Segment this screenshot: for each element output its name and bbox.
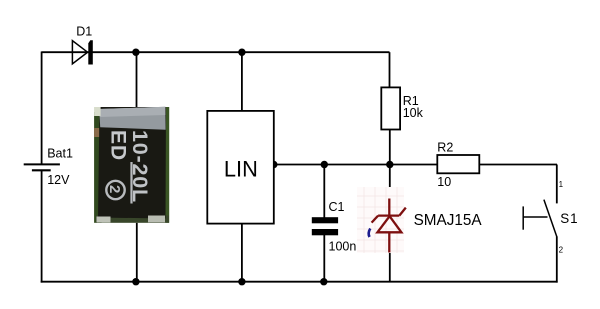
battery Bat1 — [24, 146, 73, 187]
wire middle rail — [274, 164, 557, 166]
node dot bottom rail / LIN — [238, 278, 245, 285]
svg-text:ED: ED — [107, 130, 130, 161]
svg-text:S1: S1 — [560, 211, 578, 226]
LIN module box — [207, 111, 273, 224]
wire C1 top — [323, 165, 325, 218]
wire TVS bottom — [389, 253, 391, 282]
wire photo top — [136, 52, 138, 108]
svg-text:R2: R2 — [437, 140, 453, 154]
diode D1 — [72, 25, 92, 65]
svg-text:100n: 100n — [329, 239, 357, 253]
TVS diode SMAJ15A — [372, 199, 406, 253]
wire LIN bottom — [241, 224, 243, 282]
wire left battery top — [41, 52, 43, 165]
lever — [544, 200, 557, 237]
node dot bottom rail / C1 — [320, 278, 327, 285]
wire photo bottom — [136, 223, 138, 282]
node dot top rail / photo — [132, 49, 139, 56]
node dot bottom rail / photo — [132, 278, 139, 285]
svg-text:1: 1 — [559, 180, 564, 189]
capacitor C1 — [312, 200, 357, 253]
svg-text:10: 10 — [437, 175, 451, 189]
wire left battery bottom — [41, 170, 43, 282]
wire S1 top — [556, 165, 558, 204]
wire TVS top — [389, 165, 391, 200]
wire R1 top — [389, 52, 391, 87]
svg-text:C1: C1 — [329, 200, 345, 214]
node dot top rail / LIN — [238, 49, 245, 56]
wire bottom rail — [41, 281, 558, 283]
svg-text:D1: D1 — [76, 25, 92, 39]
svg-text:SMAJ15A: SMAJ15A — [414, 212, 483, 229]
wire LIN top — [241, 52, 243, 111]
node dot middle rail / LIN pin — [270, 161, 277, 168]
blue artifact mark — [369, 229, 371, 238]
svg-text:10k: 10k — [403, 106, 424, 120]
actuator head — [522, 206, 524, 229]
photo logo circle — [106, 181, 124, 199]
node dot middle rail / R1-TVS — [386, 161, 393, 168]
component photo (SMD part on PCB) — [94, 107, 169, 223]
wire S1 bottom — [556, 237, 558, 283]
svg-text:2: 2 — [559, 246, 564, 255]
wire R1 bottom — [389, 130, 391, 165]
photo underline under 20L — [130, 162, 132, 204]
svg-text:Bat1: Bat1 — [47, 146, 73, 160]
resistor R2 — [437, 140, 479, 189]
wire top rail — [42, 51, 390, 53]
svg-text:12V: 12V — [47, 173, 70, 187]
svg-text:LIN: LIN — [224, 157, 258, 182]
resistor R1 — [381, 87, 423, 129]
actuator shaft — [523, 216, 547, 218]
switch S1 — [523, 180, 578, 255]
wire C1 bottom — [323, 235, 325, 282]
svg-text:2: 2 — [106, 185, 123, 193]
node dot middle rail / C1 — [321, 161, 328, 168]
TVS grid background — [357, 187, 404, 253]
